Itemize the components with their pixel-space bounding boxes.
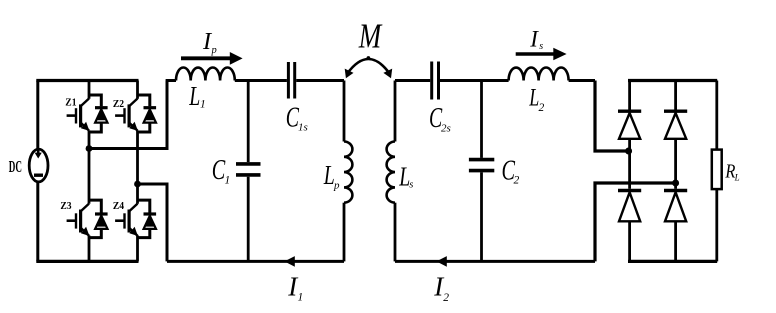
svg-text:p: p <box>333 180 340 192</box>
wire secondary top left <box>395 79 430 82</box>
svg-text:Z2: Z2 <box>113 99 124 110</box>
svg-text:2: 2 <box>443 292 449 304</box>
wire C1 branch lower <box>247 177 250 262</box>
wire top rail inverter <box>36 79 138 82</box>
svg-text:L: L <box>189 81 201 111</box>
wire C2 branch upper <box>480 81 483 158</box>
wire leg1 upper segment <box>88 81 91 99</box>
node A (leg1 midpoint junction) <box>86 145 93 152</box>
wire bridge right leg lower lead <box>674 221 677 261</box>
diode D1 (bridge upper-left) <box>618 111 641 139</box>
label C1s <box>286 103 308 134</box>
diode D_Z2 (antiparallel of Z2) <box>138 95 157 132</box>
diode D_Z3 (antiparallel of Z3) <box>89 200 108 238</box>
label C2s <box>429 103 451 135</box>
diode D2 (bridge upper-right) <box>664 111 687 139</box>
label Ls <box>399 162 414 192</box>
svg-text:1s: 1s <box>298 122 308 134</box>
svg-text:L: L <box>734 173 740 183</box>
inductor L2 <box>509 68 569 81</box>
svg-text:s: s <box>539 41 543 52</box>
diode D3 (bridge lower-left) <box>618 191 641 222</box>
label Is <box>529 27 543 52</box>
label Ip <box>202 28 217 56</box>
wire Ls bottom lead <box>394 203 397 262</box>
svg-text:2: 2 <box>539 102 545 114</box>
wire bridge right leg middle lead <box>674 139 677 189</box>
diode D_Z4 (antiparallel of Z4) <box>138 200 157 238</box>
svg-text:I: I <box>529 27 539 52</box>
wire C1 branch upper <box>247 81 250 163</box>
svg-text:1: 1 <box>298 292 304 304</box>
capacitor C1 <box>236 164 261 175</box>
wire leg1 middle segment <box>88 130 91 203</box>
wire primary top right <box>296 79 344 82</box>
wire leg2 middle segment <box>136 130 139 203</box>
inductor L1 <box>176 67 235 80</box>
current arrow Ip <box>181 52 243 65</box>
capacitor C2s <box>432 62 439 100</box>
wire rectifier input 1 (from L2) <box>595 81 628 152</box>
wire leg1 lower segment <box>88 235 91 261</box>
wire bridge right leg upper lead <box>674 81 677 110</box>
wire bridge left leg lower lead <box>628 221 631 261</box>
wire bottom rail inverter <box>36 260 138 263</box>
resistor RL <box>712 150 722 190</box>
label RL <box>725 161 740 183</box>
label L1 <box>189 81 206 111</box>
diode D4 (bridge lower-right) <box>664 191 687 222</box>
capacitor C2 <box>469 160 494 171</box>
svg-text:Z4: Z4 <box>113 201 125 212</box>
wire bridge left leg upper lead <box>628 81 631 110</box>
wire inverter output A <box>89 81 167 149</box>
svg-text:s: s <box>409 180 413 191</box>
current arrowhead I1 <box>284 256 294 267</box>
svg-text:Z3: Z3 <box>60 201 71 212</box>
coil Lp (primary coil) <box>344 142 352 203</box>
svg-text:DC: DC <box>9 157 22 176</box>
wire load bottom lead <box>715 189 718 261</box>
node D (bridge right-leg junction) <box>672 180 679 187</box>
svg-text:1: 1 <box>225 175 231 187</box>
wire secondary top middle <box>440 79 509 82</box>
svg-text:2s: 2s <box>441 123 451 135</box>
wire secondary bottom <box>395 260 595 263</box>
svg-text:2: 2 <box>514 175 520 187</box>
svg-text:p: p <box>211 45 217 56</box>
transistor Q3 (IGBT Z3) <box>67 204 90 236</box>
dc source V1 <box>29 149 48 182</box>
transistor Q4 (IGBT Z4) <box>115 204 138 236</box>
wire primary top middle <box>235 79 287 82</box>
wire bridge bottom rail <box>628 260 717 263</box>
wire DC source top lead <box>36 81 39 151</box>
label Lp <box>323 160 340 192</box>
wire C2 branch lower <box>480 172 483 261</box>
diode D_Z1 (antiparallel of Z1) <box>89 95 108 132</box>
wire Lp bottom lead <box>343 203 346 262</box>
current arrow Is <box>516 48 567 60</box>
wire inverter output B <box>138 184 168 261</box>
label C1 <box>212 155 230 187</box>
wire primary bottom <box>167 260 344 263</box>
label I2 <box>433 272 449 305</box>
wire Lp top lead <box>343 81 346 142</box>
node B (leg2 midpoint junction) <box>134 181 141 188</box>
wire leg2 lower segment <box>136 235 139 261</box>
transistor Q1 (IGBT Z1) <box>67 99 90 131</box>
svg-text:1: 1 <box>200 99 206 111</box>
label L2 <box>528 85 544 115</box>
coil Ls (secondary coil) <box>387 142 395 203</box>
wire leg2 upper segment <box>136 81 139 99</box>
mutual coupling arrow M <box>345 56 393 78</box>
transistor Q2 (IGBT Z2) <box>115 99 138 131</box>
svg-text:M: M <box>358 16 383 55</box>
wire bridge left leg middle lead <box>628 139 631 189</box>
svg-text:Z1: Z1 <box>65 98 76 109</box>
wire rectifier input 2 (from secondary bottom) <box>595 183 676 261</box>
wire bridge top rail <box>628 79 717 82</box>
wire Ls top lead <box>394 81 397 142</box>
node C (bridge left-leg junction) <box>625 148 632 155</box>
wire load top lead <box>715 81 718 150</box>
capacitor C1s <box>288 62 294 99</box>
current arrowhead I2 <box>436 256 446 267</box>
label I1 <box>287 272 303 304</box>
wire secondary top right <box>569 79 595 82</box>
label C2 <box>502 156 520 187</box>
wire DC source bottom lead <box>36 181 39 261</box>
wire primary top left <box>166 79 176 82</box>
